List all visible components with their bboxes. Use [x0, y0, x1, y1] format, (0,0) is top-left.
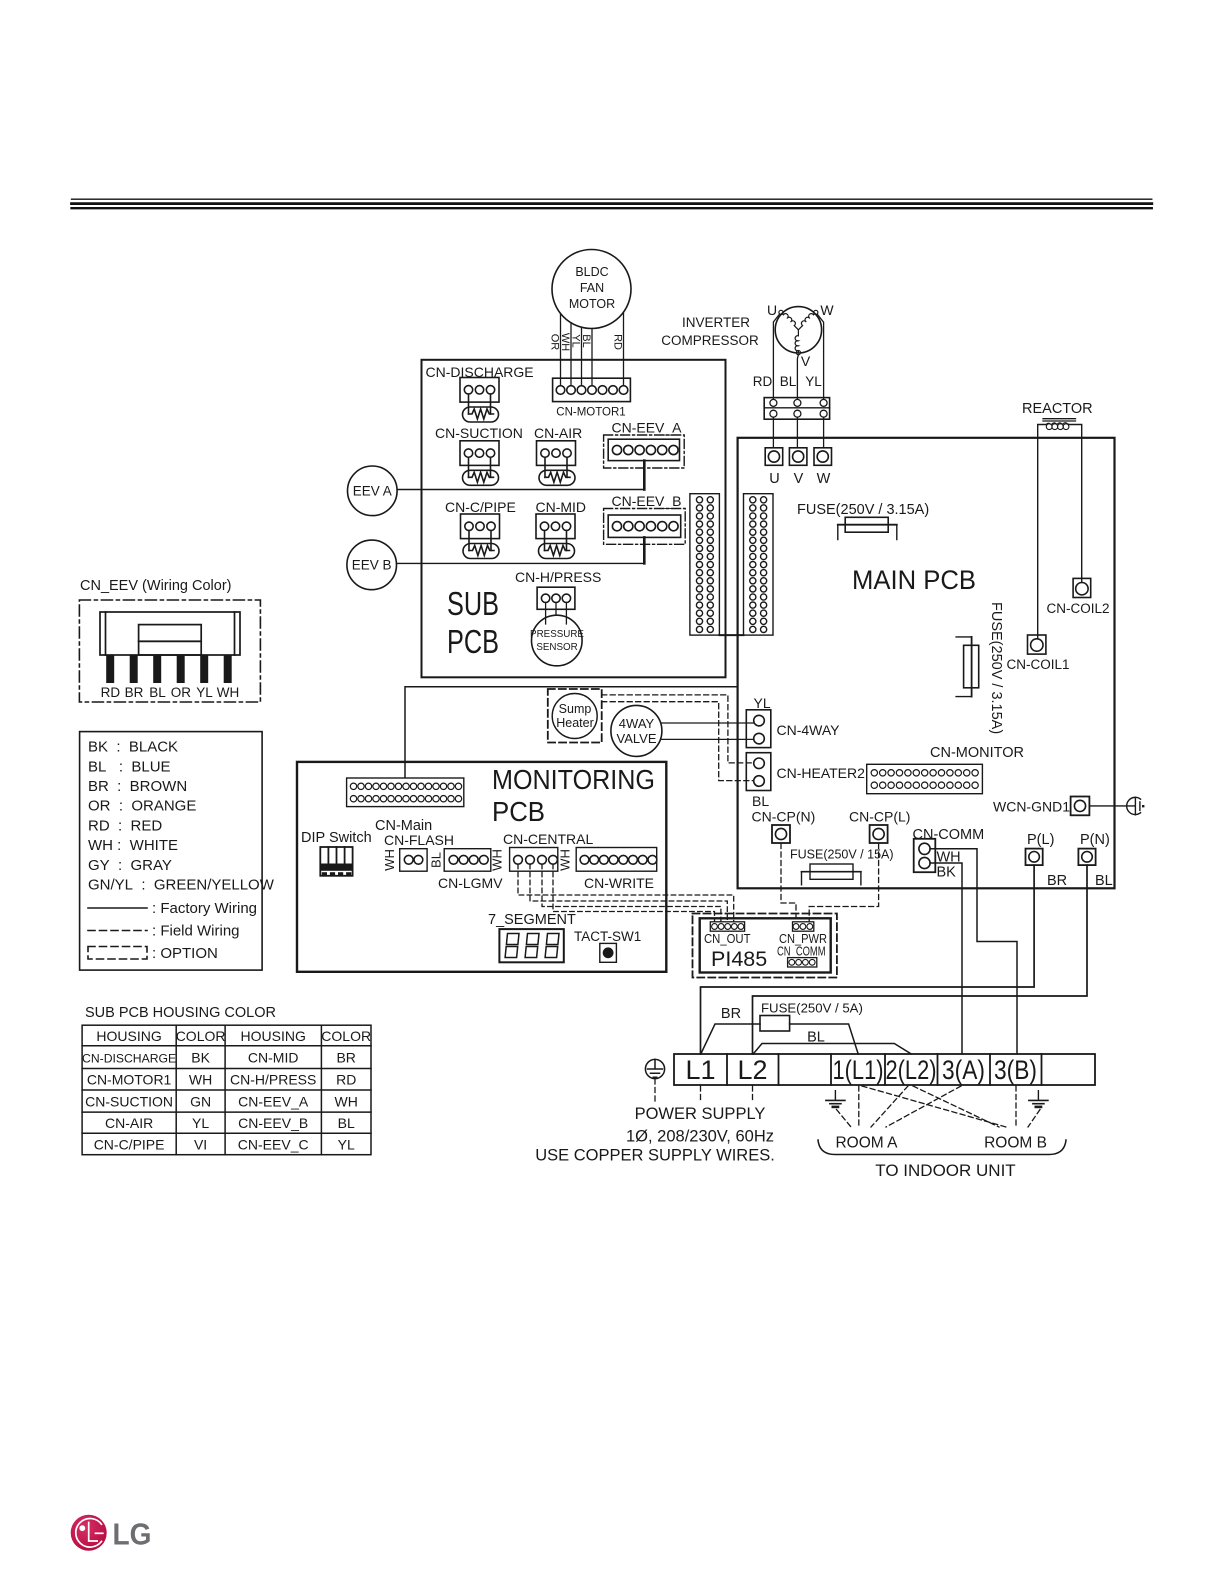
dashed wire 2(L2) to ROOM B	[913, 1086, 999, 1127]
connector P(L)	[1026, 832, 1055, 865]
connector CN-COIL1	[1006, 635, 1069, 672]
PI485 module	[693, 914, 837, 978]
svg-text:CN-WRITE: CN-WRITE	[584, 875, 654, 891]
svg-text:CN-COMM: CN-COMM	[913, 827, 985, 843]
svg-text:GN: GN	[190, 1093, 211, 1109]
svg-text:CN-MOTOR1: CN-MOTOR1	[87, 1072, 172, 1088]
svg-text:FUSE(250V / 3.15A): FUSE(250V / 3.15A)	[988, 602, 1004, 734]
svg-text:BR: BR	[721, 1006, 741, 1022]
wire P(L) to L1	[701, 865, 1035, 1054]
wire motor YL	[581, 327, 583, 385]
svg-text:PI485: PI485	[711, 947, 767, 971]
board-to-board connector strip (SUB side)	[690, 494, 720, 635]
svg-text:COLOR: COLOR	[321, 1028, 371, 1044]
connector CN-FLASH	[384, 832, 454, 871]
SUB PCB board outline	[422, 360, 726, 678]
POWER SUPPLY text	[535, 1105, 775, 1165]
EEV B	[347, 540, 397, 590]
legend factory wiring line	[88, 907, 147, 909]
svg-text:CN-EEV_A: CN-EEV_A	[238, 1093, 309, 1109]
dashed wire sump heater to CN-HEATER2 pin1	[602, 695, 754, 763]
svg-text:YL: YL	[338, 1136, 355, 1152]
svg-text:CN-EEV_B: CN-EEV_B	[612, 493, 682, 509]
svg-text:FUSE(250V / 5A): FUSE(250V / 5A)	[761, 1001, 863, 1016]
svg-text:CN-CP(N): CN-CP(N)	[752, 809, 816, 825]
legend option box	[88, 947, 147, 960]
svg-text:CN-MID: CN-MID	[536, 499, 587, 515]
jumper BL L2 to 2(L2)	[753, 1044, 911, 1055]
svg-text:CN-MOTOR1: CN-MOTOR1	[556, 407, 625, 419]
connector CN-HEATER2	[746, 753, 865, 791]
svg-text:WH: WH	[217, 685, 240, 700]
svg-text:BR: BR	[336, 1050, 355, 1066]
SUB PCB housing color table	[82, 1025, 371, 1155]
connector CN_OUT	[704, 922, 751, 946]
motor wire color labels OR WH YL BL RD	[549, 333, 624, 351]
svg-text:CN-MID: CN-MID	[248, 1050, 299, 1066]
dashed wire ground to ROOM B	[1028, 1110, 1040, 1128]
wire WCN-GND1 to chassis ground	[1089, 805, 1135, 807]
svg-text:: OPTION: : OPTION	[152, 945, 218, 962]
terminal W on MAIN PCB	[814, 448, 832, 466]
connector CN_COMM	[777, 945, 826, 968]
terminal block TB1	[674, 1054, 1095, 1085]
svg-text:CN-LGMV: CN-LGMV	[438, 875, 503, 891]
wire reactor to CN-COIL2	[1069, 425, 1082, 583]
wire motor OR	[560, 314, 562, 386]
connector CN-CP(L)	[849, 809, 910, 844]
svg-text:WH: WH	[559, 333, 571, 351]
label MONITORING PCB	[492, 764, 655, 827]
svg-text:WH : WHITE: WH : WHITE	[88, 837, 178, 854]
svg-text:BL: BL	[429, 852, 444, 868]
terminal V on MAIN PCB	[789, 448, 807, 466]
svg-text:CN-HEATER2: CN-HEATER2	[777, 765, 866, 781]
board-to-board connector strip (MAIN side)	[744, 494, 774, 635]
INVERTER COMPRESSOR label	[661, 315, 759, 348]
dashed wire CN-CENTRAL pin2 to CN_OUT	[530, 864, 727, 921]
svg-text:OR: OR	[549, 334, 561, 351]
svg-text:YL: YL	[192, 1115, 209, 1131]
4-way valve	[611, 705, 662, 756]
svg-text:L1: L1	[685, 1055, 715, 1085]
ground symbol under 1(L1)	[826, 1091, 845, 1107]
connector CN_PWR	[779, 922, 827, 946]
svg-text:W: W	[817, 471, 831, 487]
dashed wire ground to ROOM A	[837, 1110, 852, 1128]
svg-text:PCB: PCB	[492, 796, 545, 827]
labels ROOM A and ROOM B	[835, 1135, 1046, 1152]
jumper BR L1 to 1(L1) via fuse	[701, 1024, 858, 1054]
svg-text:BR : BROWN: BR : BROWN	[88, 778, 187, 795]
wire EEV B to CN-EEV_B	[397, 562, 645, 564]
svg-text:RD: RD	[336, 1072, 356, 1088]
labels U V W	[769, 471, 830, 487]
dashed lead L1 to power supply	[700, 1086, 702, 1103]
svg-text:BK: BK	[191, 1050, 210, 1066]
bracket to indoor unit	[818, 1140, 1066, 1155]
svg-text:1Ø, 208/230V, 60Hz: 1Ø, 208/230V, 60Hz	[626, 1128, 774, 1146]
pressure sensor	[530, 615, 584, 666]
svg-text:CN-C/PIPE: CN-C/PIPE	[94, 1136, 165, 1152]
svg-text:RD: RD	[101, 685, 121, 700]
svg-text:BR: BR	[125, 685, 144, 700]
svg-text:P(L): P(L)	[1027, 832, 1054, 848]
wire compressor V-BL	[797, 355, 798, 400]
svg-text:OR: OR	[171, 685, 192, 700]
svg-text:CN-FLASH: CN-FLASH	[384, 832, 454, 848]
svg-text:: Field Wiring: : Field Wiring	[152, 923, 240, 940]
svg-text:COMPRESSOR: COMPRESSOR	[661, 333, 759, 348]
svg-text:FUSE(250V / 3.15A): FUSE(250V / 3.15A)	[797, 502, 929, 518]
svg-text:BL: BL	[338, 1115, 355, 1131]
svg-text:MAIN PCB: MAIN PCB	[852, 565, 976, 595]
dashed wire CN-CP(N) to PI485 CN_PWR	[781, 844, 796, 922]
svg-text:ROOM A: ROOM A	[835, 1135, 898, 1152]
svg-text:CN-EEV_C: CN-EEV_C	[238, 1136, 309, 1152]
fuse F3 symbol	[802, 864, 861, 885]
fuse F2 symbol vertical	[956, 637, 979, 697]
svg-text:BL: BL	[1095, 873, 1113, 889]
svg-text:3(B): 3(B)	[994, 1055, 1037, 1085]
svg-text:CN-MONITOR: CN-MONITOR	[930, 745, 1024, 761]
connector CN-CP(N)	[752, 809, 816, 844]
svg-text:WH: WH	[189, 1072, 212, 1088]
top triple rule	[72, 199, 1152, 208]
svg-text:TO INDOOR UNIT: TO INDOOR UNIT	[875, 1161, 1015, 1180]
connector CN-H/PRESS	[515, 569, 601, 624]
svg-text:EEV B: EEV B	[352, 558, 392, 573]
wire joining strip bottoms	[719, 634, 743, 636]
dashed wire 2(L2) to ROOM A	[871, 1086, 908, 1127]
connector CN-WRITE	[576, 848, 657, 892]
svg-text:SENSOR: SENSOR	[536, 642, 577, 653]
svg-text:INVERTER: INVERTER	[682, 315, 750, 330]
svg-text:CN-4WAY: CN-4WAY	[777, 722, 841, 738]
svg-text:BK: BK	[937, 865, 957, 881]
dashed wire CN-CENTRAL pin1 to CN_OUT	[518, 864, 734, 921]
svg-text:WH: WH	[558, 849, 573, 871]
terminal labels L1 L2 1(L1) 2(L2) 3(A) 3(B)	[685, 1055, 1037, 1085]
dashed wire CN-CP(L) to PI485 CN_PWR	[809, 844, 878, 922]
svg-text:CN-COIL1: CN-COIL1	[1006, 657, 1069, 672]
svg-text:CN-CP(L): CN-CP(L)	[849, 809, 910, 825]
svg-text:ROOM B: ROOM B	[984, 1135, 1047, 1152]
svg-text:GN/YL : GREEN/YELLOW: GN/YL : GREEN/YELLOW	[88, 876, 275, 893]
connector CN-MOTOR1	[553, 378, 631, 418]
dashed wire sump heater to CN-HEATER2 pin2	[602, 702, 754, 781]
svg-text:Heater: Heater	[556, 716, 594, 730]
svg-text:WH: WH	[335, 1093, 358, 1109]
wire P(N) to L2	[753, 865, 1088, 1054]
labels RD BL YL	[753, 374, 822, 389]
svg-text:TACT-SW1: TACT-SW1	[574, 929, 641, 944]
svg-text:Sump: Sump	[559, 702, 592, 716]
wire 4way valve to CN-4WAY pin1	[662, 722, 754, 724]
svg-text:CN-DISCHARGE: CN-DISCHARGE	[82, 1052, 176, 1066]
svg-text:CN-CENTRAL: CN-CENTRAL	[503, 831, 593, 847]
svg-text:RD : RED: RD : RED	[88, 817, 162, 834]
svg-text:BLDC: BLDC	[575, 265, 608, 279]
connector CN-EEV_B	[604, 493, 686, 544]
dashed wire 3(B) to ROOM B	[1015, 1086, 1017, 1128]
svg-text:CN-AIR: CN-AIR	[105, 1115, 153, 1131]
dashed lead L2 to power supply	[752, 1086, 754, 1103]
svg-text:HOUSING: HOUSING	[96, 1028, 161, 1044]
svg-text:: Factory Wiring: : Factory Wiring	[152, 900, 257, 917]
svg-text:LG: LG	[113, 1517, 152, 1552]
LG logo	[71, 1515, 152, 1552]
svg-text:CN_COMM: CN_COMM	[777, 945, 826, 959]
MAIN PCB board outline	[738, 438, 1115, 889]
svg-text:U: U	[767, 302, 777, 318]
svg-text:CN-H/PRESS: CN-H/PRESS	[230, 1072, 316, 1088]
svg-text:CN-EEV_A: CN-EEV_A	[612, 420, 683, 436]
connector CN-COMM	[913, 827, 985, 881]
connector P(N)	[1078, 832, 1109, 865]
compressor terminal labels U W V	[767, 302, 834, 369]
MONITORING PCB board outline	[297, 762, 666, 972]
connector CN-COIL2	[1046, 578, 1109, 616]
svg-text:FAN: FAN	[580, 281, 604, 295]
svg-text:RD: RD	[612, 334, 624, 350]
svg-text:MOTOR: MOTOR	[569, 297, 615, 311]
sump heater (option)	[548, 689, 602, 743]
connector WCN-GND1	[993, 797, 1089, 816]
svg-text:WH: WH	[382, 849, 397, 871]
svg-text:EEV A: EEV A	[353, 484, 392, 499]
dashed wire 1(L1) to ROOM B	[862, 1086, 1006, 1127]
svg-text:CN-AIR: CN-AIR	[534, 425, 582, 441]
pin color labels RD BR BL OR YL WH	[101, 685, 240, 700]
connector CN-4WAY	[746, 710, 840, 748]
svg-text:CN-H/PRESS: CN-H/PRESS	[515, 569, 601, 585]
svg-text:BK : BLACK: BK : BLACK	[88, 739, 178, 756]
tact switch TACT-SW1	[574, 929, 641, 962]
svg-text:WH: WH	[490, 849, 505, 871]
svg-text:MONITORING: MONITORING	[492, 764, 655, 795]
connector CN-CENTRAL	[503, 831, 593, 871]
svg-text:VALVE: VALVE	[617, 731, 657, 746]
svg-text:PCB: PCB	[447, 623, 499, 660]
wire 4way valve to CN-4WAY pin2	[661, 738, 754, 740]
svg-text:GY : GRAY: GY : GRAY	[88, 857, 172, 874]
wire CN-Main to MAIN PCB	[405, 687, 738, 778]
svg-text:1(L1): 1(L1)	[833, 1055, 884, 1085]
connector CN-MONITOR	[867, 745, 1024, 794]
svg-text:REACTOR: REACTOR	[1022, 401, 1093, 417]
svg-text:CN-COIL2: CN-COIL2	[1046, 601, 1109, 616]
svg-text:U: U	[769, 471, 779, 487]
dashed wire CN-CENTRAL pin3 to CN_OUT	[542, 864, 721, 921]
svg-text:7_SEGMENT: 7_SEGMENT	[488, 912, 576, 928]
label SUB PCB	[447, 585, 499, 660]
connector CN-EEV_A	[604, 420, 685, 469]
reactor L1 symbol	[1043, 419, 1076, 430]
svg-text:SUB PCB HOUSING COLOR: SUB PCB HOUSING COLOR	[85, 1005, 276, 1021]
svg-text:YL: YL	[805, 374, 822, 389]
chassis ground symbol	[1127, 797, 1145, 815]
svg-text:WCN-GND1: WCN-GND1	[993, 799, 1070, 815]
CN_EEV housing drawing (option box)	[79, 600, 260, 702]
svg-text:P(N): P(N)	[1080, 832, 1110, 848]
fuse F1 symbol	[838, 517, 897, 539]
dashed wire 1(L1) to ROOM A	[858, 1086, 860, 1128]
wire motor WH	[570, 323, 572, 386]
svg-text:2(L2): 2(L2)	[886, 1055, 937, 1085]
7 segment display	[488, 912, 576, 962]
wire motor RD	[623, 312, 625, 385]
BLDC fan motor M1	[552, 250, 631, 329]
svg-text:W: W	[820, 302, 834, 318]
svg-text:RD: RD	[753, 374, 773, 389]
svg-text:V: V	[801, 353, 811, 369]
svg-text:CN-SUCTION: CN-SUCTION	[435, 425, 523, 441]
dashed lead earth to power supply	[654, 1079, 656, 1101]
svg-text:BL: BL	[580, 334, 592, 347]
svg-text:L2: L2	[737, 1055, 767, 1085]
svg-text:BR: BR	[1047, 873, 1067, 889]
svg-text:CN_EEV (Wiring Color): CN_EEV (Wiring Color)	[80, 578, 231, 594]
wire compressor U-RD	[773, 314, 779, 399]
svg-text:VI: VI	[194, 1136, 207, 1152]
svg-text:CN-SUCTION: CN-SUCTION	[85, 1093, 173, 1109]
wire EEV A to CN-EEV_A	[397, 489, 644, 491]
svg-text:3(A): 3(A)	[942, 1055, 985, 1085]
connector CN-LGMV	[438, 849, 503, 891]
svg-text:USE COPPER SUPPLY WIRES.: USE COPPER SUPPLY WIRES.	[535, 1147, 775, 1165]
dashed wire CN-CENTRAL pin4 to CN_OUT	[553, 864, 715, 921]
svg-text:YL: YL	[570, 334, 582, 347]
dashed wire 3(A) to ROOM A	[886, 1086, 961, 1127]
svg-text:BL : BLUE: BL : BLUE	[88, 758, 171, 775]
svg-text:BL: BL	[752, 793, 769, 809]
ground symbol right	[1029, 1091, 1048, 1107]
svg-text:V: V	[794, 471, 804, 487]
terminal U on MAIN PCB	[765, 448, 783, 466]
wires terminal to U V W inputs	[773, 417, 823, 447]
svg-text:OR : ORANGE: OR : ORANGE	[88, 798, 196, 815]
protective earth symbol	[645, 1059, 664, 1078]
wire compressor W-YL	[817, 314, 823, 399]
svg-text:BL: BL	[780, 374, 797, 389]
wire motor BL	[591, 329, 593, 386]
EEV A	[348, 466, 398, 516]
svg-text:BL: BL	[149, 685, 166, 700]
svg-text:POWER SUPPLY: POWER SUPPLY	[635, 1105, 766, 1123]
svg-text:4WAY: 4WAY	[619, 716, 655, 731]
svg-text:CN-EEV_B: CN-EEV_B	[238, 1115, 308, 1131]
legend field wiring line	[88, 930, 147, 932]
svg-text:COLOR: COLOR	[176, 1028, 226, 1044]
inverter compressor motor	[775, 307, 821, 355]
svg-text:PRESSURE: PRESSURE	[530, 629, 584, 640]
svg-text:HOUSING: HOUSING	[241, 1028, 306, 1044]
fuse F4 symbol	[760, 1016, 790, 1032]
DIP switch SW1	[301, 830, 372, 876]
housing pins	[106, 655, 232, 683]
svg-text:CN_OUT: CN_OUT	[704, 932, 751, 946]
wire CN-COMM WH to 3(B)	[930, 849, 1017, 1054]
svg-text:CN-C/PIPE: CN-C/PIPE	[445, 499, 516, 515]
wire reactor to CN-COIL1	[1038, 425, 1046, 639]
wiring color legend box	[80, 732, 275, 971]
wire CN-COMM BK to 3(A)	[930, 863, 962, 1054]
compressor terminal block 2x3	[764, 398, 829, 420]
svg-text:YL: YL	[754, 695, 771, 711]
svg-text:SUB: SUB	[447, 585, 499, 622]
connector CN-Main	[347, 778, 464, 834]
svg-text:DIP Switch: DIP Switch	[301, 830, 372, 846]
svg-text:YL: YL	[196, 685, 213, 700]
